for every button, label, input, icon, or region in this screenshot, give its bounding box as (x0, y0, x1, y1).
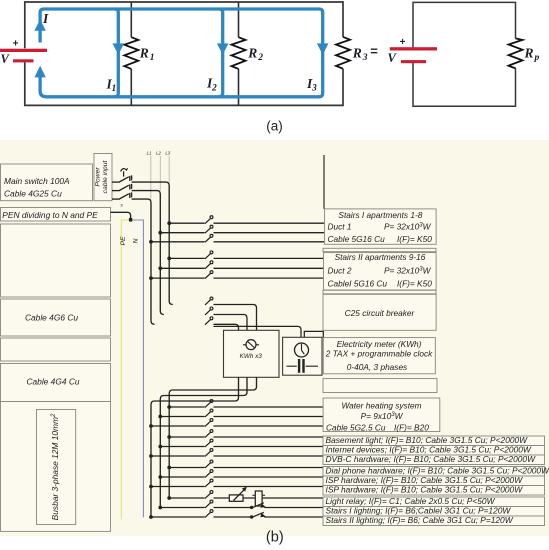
box: terminal strip under stairs I (323, 248, 436, 251)
box: Stairs II apartments (324, 253, 437, 290)
svg-text:I: I (42, 11, 49, 26)
wire: light relay feed (169, 497, 323, 499)
wire: meter feed L3 (214, 305, 257, 331)
wire: N conductor (blue) (132, 220, 143, 517)
wire: meter output L3 return to bus (169, 377, 256, 498)
svg-text:ISP hardware; I(F)= B10; Cable: ISP hardware; I(F)= B10; Cable 3G1.5 Cu;… (326, 475, 524, 485)
breaker: stairs II L1 (205, 273, 211, 278)
svg-text:2: 2 (211, 83, 217, 93)
svg-text:Cable 5G2.5 Cu: Cable 5G2.5 Cu (326, 422, 386, 432)
box: Cable 4G4 Cu (1, 364, 111, 402)
svg-text:N: N (133, 238, 140, 243)
arrow: current up (below battery) (34, 66, 45, 78)
svg-text:Light relay; I(F)= C1; Cable 2: Light relay; I(F)= C1; Cable 2x0.5 Cu; P… (326, 496, 496, 506)
junction: tap stairs I lighting (158, 506, 162, 510)
box: Power cable input (94, 154, 112, 201)
svg-text:(a): (a) (266, 119, 283, 134)
wire: water heating feed L3 (169, 406, 323, 408)
svg-text:I(F)= B20: I(F)= B20 (394, 422, 429, 432)
box: dial phone hardware row (323, 467, 545, 477)
svg-text:Cable 5G16 Cu: Cable 5G16 Cu (328, 234, 386, 244)
breaker: water heating L2 (205, 412, 211, 417)
box: tariff clock (283, 337, 322, 375)
box: DVB-C hardware row (323, 455, 545, 465)
svg-text:=: = (370, 44, 378, 59)
wire: stairs II feed L3 (169, 257, 324, 259)
resistor Rp (509, 38, 523, 68)
wire: tariff clock control line (214, 326, 302, 337)
svg-text:(b): (b) (266, 530, 284, 546)
junction: tap water heating L1 (149, 424, 153, 428)
wire: PEN feed from box to split (111, 212, 131, 220)
relay contact stairs I (dot, blade, arrow) (250, 506, 253, 509)
resistor R1 (124, 37, 138, 69)
breaker: stairs I L1 (205, 237, 211, 242)
svg-text:CableI 5G16 Cu: CableI 5G16 Cu (328, 279, 388, 289)
wire: PE conductor (yellow) (121, 220, 129, 520)
wire: clock to electricity-meter bridge (304, 331, 323, 337)
svg-text:V: V (1, 52, 11, 66)
svg-text:Stairs II lighting; I(F)= B6;: Stairs II lighting; I(F)= B6; Cable 3G1 … (326, 515, 514, 525)
svg-text:L3: L3 (165, 151, 170, 156)
svg-text:Duct 1: Duct 1 (328, 222, 352, 232)
box: Cable 4G6 Cu (1, 299, 111, 336)
breaker: meter feed L3 (205, 300, 211, 305)
battery V (circuit 1): short plate (13, 59, 34, 62)
main switch Q1: pole 1 blade (119, 175, 132, 182)
breaker: water heating L3 (205, 402, 211, 407)
junction: tap internet devices (158, 445, 162, 449)
svg-text:C25 circuit breaker: C25 circuit breaker (345, 308, 416, 318)
svg-text:Main switch 100A: Main switch 100A (4, 176, 70, 186)
svg-text:I(F)= K50: I(F)= K50 (397, 234, 432, 244)
wire: R1 branch vertical (130, 2, 132, 105)
svg-text:0-40A, 3 phases: 0-40A, 3 phases (347, 362, 407, 372)
svg-text:2: 2 (257, 53, 263, 63)
arrow: current I2 down (217, 43, 229, 54)
box: busbar outer region (1, 402, 111, 532)
main switch Q1: pole 2 input stub (112, 190, 119, 192)
box: internet devices row (323, 446, 545, 456)
svg-text:R: R (352, 45, 362, 60)
svg-text:Power: Power (95, 167, 102, 187)
wire: L1 input drop (thin) (150, 156, 152, 199)
box: ISP hardware row 1 (323, 476, 545, 486)
breaker: internet devices (205, 442, 211, 447)
wire: ISP hardware 1 feed (160, 476, 323, 478)
svg-text:Dial phone hardware; I(F)= B10: Dial phone hardware; I(F)= B10; Cable 3G… (326, 465, 549, 475)
svg-text:P= 32x103W: P= 32x103W (384, 266, 432, 276)
svg-text:PEN dividing to N and PE: PEN dividing to N and PE (2, 210, 98, 220)
svg-text:ISP hardware; I(F)= B10; Cable: ISP hardware; I(F)= B10; Cable 3G1.5 Cu;… (326, 484, 524, 494)
contactor symbol below clock (287, 365, 319, 367)
svg-text:KWh x3: KWh x3 (240, 353, 263, 360)
svg-text:Internet devices; I(F)= B10; C: Internet devices; I(F)= B10; Cable 3G1.5… (326, 444, 532, 454)
svg-text:+: + (400, 37, 406, 48)
main switch actuator linkage (121, 168, 128, 176)
svg-text:L1: L1 (147, 151, 152, 156)
svg-text:PE: PE (120, 236, 127, 246)
junction: tap L1 stairs I (149, 240, 153, 244)
box: stairs I lighting row (323, 507, 545, 517)
svg-text:Cable 4G25 Cu: Cable 4G25 Cu (4, 189, 62, 199)
box: Stairs I apartments (325, 209, 437, 244)
breaker: stairs I L3 (205, 218, 211, 223)
wire: circuit 1 outer loop with resistor R3 on right edge (25, 2, 343, 105)
wire: L3 bus after switch (pole1 to meter group row1) (132, 182, 173, 304)
wire: L1 bus after switch (pole3) (132, 199, 155, 324)
wire: L2 bus after switch (pole2) (132, 191, 164, 315)
svg-text:2 TAX + programmable clock: 2 TAX + programmable clock (325, 349, 433, 359)
wire: riser to right-hand boxes (323, 155, 325, 209)
breaker: ISP hardware 1 (205, 472, 211, 477)
junction: tap basement light (167, 435, 171, 439)
resistor R2 (232, 37, 246, 69)
battery V (circuit 1): long plate (0, 49, 47, 52)
wire: meter output L2 return to bus (160, 377, 247, 507)
wire: blue branch through R1 (I1) (115, 9, 119, 97)
resistor R3 (336, 37, 350, 69)
junction: tap water heating L2 (158, 415, 162, 419)
breaker: water heating L1 (205, 421, 211, 426)
junction: tap stairs II lighting (149, 515, 153, 519)
junction: tap L3 stairs II (167, 257, 171, 261)
svg-text:3: 3 (311, 84, 317, 94)
breaker: DVB-C hardware (205, 451, 211, 456)
junction: PEN split node (129, 218, 133, 222)
wire: R2 branch vertical (238, 2, 240, 105)
wire: stairs I lighting feed (160, 507, 323, 509)
breaker: meter feed L1 (205, 320, 211, 325)
wire: internet devices feed (160, 446, 323, 448)
arrow: current I1 down (113, 43, 125, 54)
junction: tap L2 stairs II (158, 266, 162, 270)
wire: meter feed L2 (214, 315, 248, 331)
svg-text:Basement light; I(F)= B10; Cab: Basement light; I(F)= B10; Cable 3G1.5 C… (326, 435, 529, 445)
box: terminal strip under stairs II (323, 290, 436, 294)
wire: DVB-C hardware feed (151, 455, 323, 457)
wire: L2 input drop (thin) (159, 156, 161, 191)
breaker: ISP hardware 2 (205, 482, 211, 487)
svg-text:cable input: cable input (102, 159, 109, 193)
box: empty left panel 2 (1, 338, 111, 361)
svg-text:R: R (139, 45, 149, 60)
svg-text:1: 1 (150, 53, 155, 63)
wire: meter feed L1 (214, 324, 239, 330)
breaker: stairs II lighting (205, 512, 211, 517)
svg-text:Stairs I apartments 1-8: Stairs I apartments 1-8 (338, 210, 422, 220)
relay contact stairs II (dot, blade, arrow) (250, 515, 253, 518)
svg-text:Water heating system: Water heating system (341, 401, 421, 411)
box: ISP hardware row 2 (323, 486, 545, 496)
junction: tap ISP hardware 1 (158, 475, 162, 479)
box: C25 circuit breaker (323, 294, 436, 330)
wire: L3 input drop (thin) (168, 156, 170, 182)
clock symbol (295, 343, 309, 357)
box: water heating system (323, 398, 440, 432)
svg-text:R: R (524, 45, 534, 60)
battery V (circuit 2): long plate (390, 47, 437, 50)
svg-text:P= 32x103W: P= 32x103W (384, 222, 432, 232)
svg-text:Cable 4G4 Cu: Cable 4G4 Cu (26, 377, 79, 387)
wire: stairs II feed L1 (151, 277, 324, 279)
breaker: stairs I L2 (205, 228, 211, 233)
battery V (circuit 2): short plate (401, 60, 426, 63)
relay coil (light relay) (229, 495, 243, 501)
junction: tap L3 stairs I (167, 221, 171, 225)
svg-text:Stairs II apartments 9-16: Stairs II apartments 9-16 (335, 252, 426, 262)
svg-text:V: V (388, 51, 398, 65)
svg-text:Busbar 3-phase 12M 10mm2: Busbar 3-phase 12M 10mm2 (50, 413, 60, 520)
junction: tap DVB-C hardware (149, 454, 153, 458)
wire: basement light feed (169, 436, 323, 438)
box: PEN dividing to N and PE (1, 208, 111, 222)
relay contact block (255, 491, 262, 506)
wire: stairs I feed L3 (169, 222, 324, 224)
wire: stairs II feed L2 (160, 267, 324, 269)
main switch Q1: pole 3 blade (119, 192, 132, 199)
wire: stairs I feed L2 (160, 232, 324, 234)
svg-text:DVB-C hardware; I(F)= B10; Cab: DVB-C hardware; I(F)= B10; Cable 3G1.5 C… (326, 454, 537, 464)
junction: tap L1 stairs II (149, 276, 153, 280)
breaker: stairs II L2 (205, 264, 211, 269)
box: empty strip below electricity meter (323, 379, 437, 393)
junction: tap ISP hardware 2 (149, 485, 153, 489)
main switch Q1: pole 1 input stub (112, 181, 119, 183)
svg-text:P= 9x103W: P= 9x103W (361, 411, 404, 421)
wire: stairs II lighting feed (151, 516, 323, 518)
wire: water heating feed L1 (151, 425, 323, 427)
box: busbar 3-phase inner (37, 410, 76, 525)
box: kWh meter (224, 330, 280, 377)
box: electricity meter (323, 338, 435, 374)
junction: tap water heating L3 (167, 405, 171, 409)
svg-text:Cable 4G6 Cu: Cable 4G6 Cu (25, 313, 78, 323)
main switch Q1: pole 2 blade (119, 184, 132, 191)
box: empty left panel (1, 224, 111, 297)
breaker: stairs I lighting (205, 503, 211, 508)
wire: blue branch through R2 (I2) (219, 9, 223, 97)
breaker: stairs II L3 (205, 254, 211, 259)
box: basement light row (323, 436, 545, 446)
junction: tap light relay (167, 496, 171, 500)
meter symbol (circle with needle) (243, 344, 259, 346)
svg-text:Stairs I lighting; I(F)= B6;Ca: Stairs I lighting; I(F)= B6;CableI 3G1 C… (326, 505, 512, 515)
wire: ISP hardware 2 feed (151, 486, 323, 488)
svg-text:p: p (534, 53, 540, 63)
svg-text:+: + (13, 38, 19, 49)
breaker: light relay (205, 493, 211, 498)
breaker: basement light (205, 432, 211, 437)
svg-text:R: R (247, 45, 257, 60)
arrow: current I3 down (317, 43, 329, 54)
background panel of diagram (b) (0, 140, 549, 536)
wire: meter output L1 return to bus (151, 377, 239, 517)
svg-text:Duct 2: Duct 2 (328, 266, 352, 276)
box: stairs II lighting row (323, 516, 545, 526)
wire: stairs I feed L1 (151, 241, 324, 243)
wire: dial phone hardware feed (169, 467, 323, 469)
wire: blue current loop, top rail + outer verticals (40, 9, 323, 97)
svg-text:1: 1 (112, 84, 117, 94)
wire: water heating feed L2 (160, 416, 323, 418)
svg-text:3: 3 (362, 53, 368, 63)
main switch Q1: pole 3 input stub (112, 198, 119, 200)
junction: tap dial phone hardware (167, 466, 171, 470)
light sensor arrow through coil (234, 489, 246, 501)
svg-text:L2: L2 (156, 151, 161, 156)
arrow: current I up (above battery) (34, 19, 45, 31)
junction: tap L2 stairs I (158, 231, 162, 235)
wire: circuit 2 loop with resistor Rp on right edge (413, 2, 516, 106)
breaker: meter feed L2 (205, 310, 211, 315)
svg-text:I(F)= K50: I(F)= K50 (397, 279, 432, 289)
box: Main switch 100A / Cable 4G25 Cu (1, 164, 93, 201)
box: light relay row (323, 497, 545, 507)
breaker: dial phone hardware (205, 463, 211, 468)
